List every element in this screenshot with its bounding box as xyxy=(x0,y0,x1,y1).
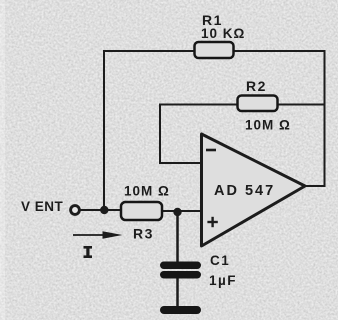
op-amp minus sign xyxy=(206,149,216,152)
junction node at left vertical xyxy=(100,206,108,214)
input terminal circle xyxy=(71,206,80,215)
resistor R2 xyxy=(238,96,278,112)
svg-text:10M Ω: 10M Ω xyxy=(245,118,291,133)
svg-text:1µF: 1µF xyxy=(209,273,237,288)
wire left vertical xyxy=(103,51,105,210)
svg-text:R3: R3 xyxy=(133,226,154,242)
wire C1 to ground xyxy=(176,277,179,308)
wire R2 left xyxy=(160,104,239,106)
capacitor C1 bottom plate xyxy=(160,271,201,279)
wire V ENT to R3 xyxy=(79,209,122,211)
resistor R3 xyxy=(121,202,162,220)
ground bar xyxy=(160,306,201,314)
svg-text:R2: R2 xyxy=(246,78,267,94)
op-amp plus sign xyxy=(207,217,217,227)
wire R2 right xyxy=(277,104,325,106)
wire node to C1 xyxy=(176,212,179,263)
svg-text:10M Ω: 10M Ω xyxy=(124,184,170,199)
svg-text:10 KΩ: 10 KΩ xyxy=(201,26,245,41)
wire R1 left xyxy=(104,50,195,52)
wire R1 right xyxy=(233,50,325,52)
wire inverting input xyxy=(160,162,202,164)
junction node at + input xyxy=(173,208,181,216)
faint light strip at left edge xyxy=(0,0,5,320)
capacitor C1 top plate xyxy=(160,262,201,270)
current arrow xyxy=(73,231,123,239)
wire right vertical xyxy=(324,51,326,186)
wire R3 to op-amp xyxy=(161,210,202,212)
svg-text:AD 547: AD 547 xyxy=(214,183,275,199)
svg-text:V ENT: V ENT xyxy=(21,199,64,214)
wire R2 branch vertical xyxy=(159,105,161,164)
svg-text:C1: C1 xyxy=(210,253,230,268)
wire output xyxy=(304,185,325,187)
op-amp U1 AD 547 xyxy=(202,134,306,246)
resistor R1 xyxy=(195,42,234,58)
label I (current) xyxy=(84,246,93,258)
